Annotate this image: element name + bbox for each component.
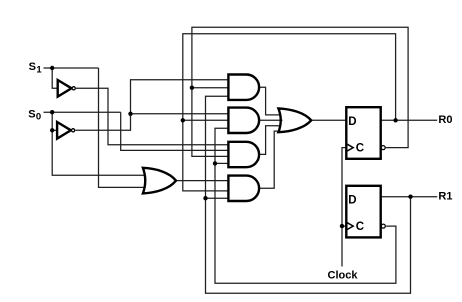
wire OR output to FF1 D [311,119,346,121]
FF1 clock triangle [346,144,353,152]
wire inverter2 output up to AND1 input 1 [75,80,229,131]
wire V2 branch to AND3 input 4 [215,162,229,164]
svg-text:C: C [356,143,364,155]
wire V1 feedback R1 from R1 node to AND1 input 3 [206,96,411,293]
junction dot wireB-AND2 [181,118,185,122]
wire S1 descent to small OR input 2 [99,68,146,187]
wire S0 lead [44,111,121,113]
wire AND1 output to OR input 1 [259,87,280,115]
svg-text:1: 1 [36,65,42,76]
junction dot V1-AND4 [203,196,207,200]
wire S0 descent to AND3 input 2 [121,112,229,150]
or-gate small [143,168,176,194]
FF2 Qbar bubble [381,224,385,228]
inverter 1 bubble [72,87,75,90]
inverter 2 bubble [72,129,75,132]
wire A feedback Q1' from FF1 bubble to AND3 input 3 [192,27,408,156]
wire AND2 output to OR input 2 [259,119,282,121]
wire V2 feedback Q2' from FF2 bubble to AND2 input 3 [215,128,396,283]
wire S0 branch down to inverter2 and small OR input 1 [52,112,145,175]
junction dot S1-inv1 [50,66,54,70]
or-gate big [278,108,311,132]
wire small OR output to AND4 input 1 [176,180,229,182]
svg-text:D: D [348,195,356,207]
junction dot R1 node [408,195,412,199]
svg-text:S: S [28,108,35,120]
svg-text:R0: R0 [438,114,452,126]
svg-text:R1: R1 [438,190,452,202]
and-gate G3 [228,142,259,167]
wire AND4 output to OR input 4 [259,131,280,188]
svg-text:0: 0 [36,112,41,123]
wire S1 to inverter input [52,68,58,88]
flip-flop FF1 box [346,107,380,159]
junction dot S0-inv2 [50,110,54,114]
wire clock stub to FF2 C [342,225,346,227]
wire stub inverter2 input [52,129,57,131]
and-gate G1 [228,75,259,100]
wire S1 lead [44,67,99,69]
svg-text:S: S [29,61,36,73]
wire FF1 Q to R0 [381,119,438,121]
wire A branch to AND1 input 2 [192,87,229,89]
wire FF2 Q to R1 [381,196,438,198]
junction dot S0' branch [128,112,132,116]
flip-flop FF2 box [346,186,380,238]
and-gate G2 [228,108,259,133]
junction dot clock FF2 [340,224,344,228]
wire V1 branch to AND4 input 3 [206,197,230,199]
svg-text:C: C [356,221,364,233]
wire B branch to AND2 input 2 [183,119,229,121]
inverter 2 triangle [57,122,71,139]
FF2 clock triangle [346,222,353,230]
svg-text:Clock: Clock [328,270,359,282]
svg-text:D: D [348,116,356,128]
wire B feedback Q1 from R0 node to AND4 input 2 [183,34,396,191]
junction dot wireA-AND1 [190,86,194,90]
junction dot R0 node [393,118,397,122]
wire S0' branch to AND2 input 1 [131,113,230,115]
wire AND3 output to OR input 3 [259,126,280,155]
junction dot V2-AND3 [213,161,217,165]
wire clock line [342,148,346,267]
and-gate G4 [228,176,259,201]
wire inverter1 output to AND3 input 1 [76,88,229,144]
inverter 1 triangle [58,80,72,97]
FF1 Qbar bubble [381,146,385,150]
junction dot inv2 input [50,128,54,132]
